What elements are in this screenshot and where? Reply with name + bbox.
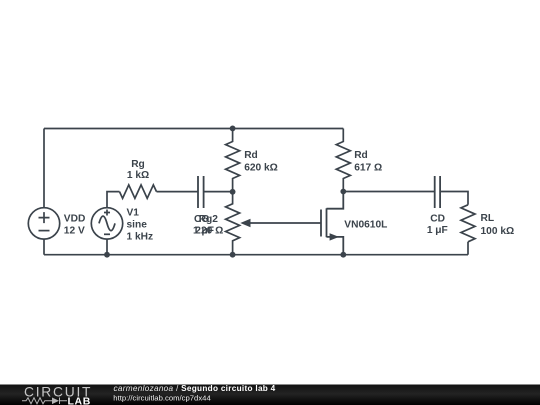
label Rg2 220 Ohm xyxy=(195,214,223,237)
label VDD 12 V xyxy=(64,213,86,236)
svg-text:RL: RL xyxy=(481,213,495,224)
voltage source VDD xyxy=(28,208,59,239)
node junction CG/Rd1/Rg2 xyxy=(230,189,236,195)
transistor Q1 source arrow xyxy=(330,233,339,240)
wire CD to RL xyxy=(440,192,468,205)
svg-text:CD: CD xyxy=(430,214,445,225)
label Rd 620 kOhm xyxy=(244,150,278,174)
label Rg 1 kOhm xyxy=(127,159,149,181)
node junction Rg2 ground xyxy=(230,252,236,258)
wire CG to node B xyxy=(204,191,233,193)
svg-text:VDD: VDD xyxy=(64,213,86,224)
svg-text:Rg2: Rg2 xyxy=(199,214,219,225)
svg-text:LAB: LAB xyxy=(68,396,91,405)
wire V1 bottom stub xyxy=(106,239,108,255)
resistor Rd2 617 xyxy=(336,129,350,192)
capacitor CD xyxy=(435,176,440,208)
svg-text:1 kHz: 1 kHz xyxy=(127,232,154,243)
node junction drain xyxy=(340,189,346,195)
CircuitLab logo resistor-diode glyph xyxy=(22,398,67,405)
svg-text:1 μF: 1 μF xyxy=(427,225,448,236)
svg-text:carmenlozanoa / Segundo circui: carmenlozanoa / Segundo circuito lab 4 xyxy=(114,384,276,393)
svg-text:620 kΩ: 620 kΩ xyxy=(244,163,278,174)
svg-text:sine: sine xyxy=(127,220,148,231)
node junction source ground xyxy=(340,252,346,258)
wire pot wiper to gate xyxy=(250,222,321,224)
wire left rail xyxy=(43,129,45,208)
label V1 sine 1 kHz xyxy=(127,208,154,243)
wire bottom rail xyxy=(44,254,468,256)
label CD 1 uF xyxy=(427,214,448,237)
potentiometer Rg2 wiper arrow xyxy=(240,219,250,228)
wire node B to CD xyxy=(343,191,434,193)
node junction V1 ground xyxy=(104,252,110,258)
label Rd 617 Ohm xyxy=(354,150,382,174)
label CG 1 uF xyxy=(193,214,214,237)
svg-text:Rd: Rd xyxy=(244,150,258,161)
node junction top of Rd1 xyxy=(230,125,236,131)
svg-text:http://circuitlab.com/cp7dx44: http://circuitlab.com/cp7dx44 xyxy=(113,394,211,403)
label RL 100 kOhm xyxy=(481,213,515,237)
svg-text:Rd: Rd xyxy=(354,150,368,161)
svg-text:1 kΩ: 1 kΩ xyxy=(127,170,149,181)
svg-text:V1: V1 xyxy=(127,208,140,219)
svg-text:220 Ω: 220 Ω xyxy=(195,226,223,237)
resistor RL xyxy=(461,205,475,242)
svg-text:617 Ω: 617 Ω xyxy=(354,163,382,174)
wire RL bottom lead xyxy=(467,242,469,255)
svg-text:Rg: Rg xyxy=(131,159,145,170)
wire Rg to CG xyxy=(157,191,199,193)
potentiometer Rg2 xyxy=(226,192,240,255)
svg-text:VN0610L: VN0610L xyxy=(344,220,387,231)
wire VDD bottom stub xyxy=(43,239,45,255)
svg-text:12 V: 12 V xyxy=(64,225,85,236)
voltage source V1 xyxy=(91,208,122,239)
wire top rail xyxy=(44,128,343,130)
resistor Rd1 620k xyxy=(226,129,240,192)
svg-text:100 kΩ: 100 kΩ xyxy=(481,226,515,237)
capacitor CG xyxy=(198,176,204,208)
wire V1 top stub to Rg xyxy=(107,192,120,208)
transistor Q1 VN0610L nmos xyxy=(321,192,343,255)
resistor Rg xyxy=(120,185,157,198)
